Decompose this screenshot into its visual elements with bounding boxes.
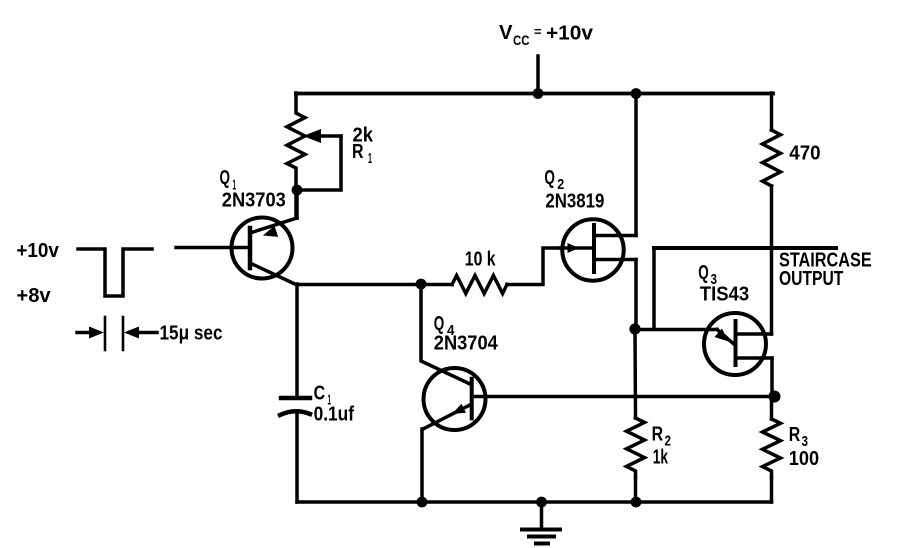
wire R2 bottom — [634, 477, 638, 502]
label Q2 — [544, 167, 564, 193]
svg-text:R: R — [789, 424, 801, 446]
label 2k — [353, 125, 374, 147]
label 2N3703 — [222, 190, 286, 212]
node Q4 emitter junction — [417, 497, 428, 508]
resistor 10k — [452, 276, 507, 294]
svg-text:OUTPUT: OUTPUT — [779, 268, 843, 290]
svg-text:2N3704: 2N3704 — [434, 333, 499, 355]
wire Q3 base-one down — [770, 358, 774, 397]
svg-text:=: = — [534, 24, 542, 39]
svg-text:TIS43: TIS43 — [700, 284, 749, 306]
svg-text:C: C — [314, 383, 326, 405]
resistor R3 100 — [763, 419, 781, 477]
wire input to Q1 base — [176, 246, 250, 250]
ground — [522, 502, 560, 544]
label R1 — [352, 141, 372, 167]
wire loop to staircase line — [652, 248, 656, 329]
svg-text:100: 100 — [789, 448, 819, 470]
transistor Q4 2N3704 (NPN) — [423, 368, 775, 430]
svg-text:2N3819: 2N3819 — [545, 191, 604, 213]
label 15u sec — [160, 323, 223, 345]
node R2 bottom junction — [631, 497, 642, 508]
svg-text:Q: Q — [220, 167, 231, 189]
resistor R2 1k — [627, 418, 645, 477]
svg-text:R: R — [652, 423, 664, 445]
label TIS43 — [700, 284, 749, 306]
wire 470 to Q3 base-two — [770, 186, 774, 334]
label Vcc = +10v — [499, 22, 594, 48]
wire main vertical (Vcc to Q2 drain) — [634, 93, 638, 236]
svg-text:10 k: 10 k — [465, 249, 496, 271]
resistor R1 2k (variable) — [287, 93, 305, 218]
svg-text:+8v: +8v — [16, 285, 51, 307]
transistor Q2 2N3819 (JFET) — [560, 219, 636, 280]
svg-text:+10v: +10v — [546, 23, 594, 45]
wire 10k to Q2 gate — [507, 248, 560, 285]
wire R1 wiper to emitter node — [297, 136, 341, 190]
wire Vcc stub — [536, 56, 540, 93]
label 2N3819 — [545, 191, 604, 213]
label +8v — [16, 285, 51, 307]
svg-text:470: 470 — [789, 143, 820, 165]
svg-text:0.1uf: 0.1uf — [314, 404, 355, 426]
resistor 470 — [763, 130, 781, 186]
label Q3 — [698, 262, 717, 288]
label 10k — [465, 249, 496, 271]
svg-text:+10v: +10v — [16, 240, 59, 262]
svg-text:V: V — [499, 22, 513, 44]
label 0.1uf — [314, 404, 355, 426]
node source/R2/emitter junction — [629, 323, 640, 334]
label R3 — [789, 424, 808, 450]
pulse waveform — [78, 249, 152, 296]
label 100 — [789, 448, 819, 470]
svg-text:Q: Q — [544, 167, 555, 189]
transistor Q1 2N3703 (PNP) — [232, 190, 298, 285]
wire bottom ground bus — [297, 500, 772, 504]
wire Q4 emitter down — [420, 429, 424, 502]
dimension arrows 15us — [77, 317, 157, 350]
wire Q1 emitter node horizontal — [297, 283, 452, 287]
svg-text:1: 1 — [368, 150, 372, 167]
svg-text:CC: CC — [513, 32, 530, 48]
node output/R3 junction — [769, 391, 781, 403]
wiper arrow of R1 — [303, 129, 341, 143]
wire Q4 collector up to junction — [421, 284, 470, 384]
svg-text:R: R — [352, 141, 364, 163]
label R2 — [652, 423, 671, 449]
svg-text:Q: Q — [698, 262, 709, 284]
label 2N3704 — [434, 333, 499, 355]
label 470 — [789, 143, 820, 165]
label STAIRCASE — [779, 250, 872, 272]
node bus junction — [631, 88, 642, 99]
label 1k — [653, 447, 669, 469]
svg-text:1k: 1k — [653, 447, 669, 469]
wire staircase output line — [654, 246, 836, 250]
node Q4 collector junction — [416, 279, 427, 290]
wire R3 bottom — [770, 477, 774, 502]
label +10v — [16, 240, 59, 262]
wire junction down to R2 — [633, 329, 637, 418]
wire R3 top lead — [770, 397, 774, 420]
node ground junction — [536, 497, 547, 508]
label Q4 — [434, 313, 455, 339]
wire Vcc bus right corner down to 470 — [770, 93, 774, 130]
node Vcc junction — [533, 88, 544, 99]
label Q1 — [220, 167, 237, 194]
wire top supply bus — [296, 92, 773, 96]
label OUTPUT — [779, 268, 843, 290]
wire Q2 source down — [634, 260, 638, 330]
svg-text:2N3703: 2N3703 — [222, 190, 286, 212]
label C1 — [314, 383, 331, 409]
transistor Q3 TIS43 (UJT) — [704, 313, 772, 375]
node R1 bottom junction — [292, 185, 303, 196]
wire junction to Q3 emitter — [635, 328, 717, 332]
capacitor C1 — [280, 284, 310, 502]
svg-text:15μ sec: 15μ sec — [160, 323, 223, 345]
